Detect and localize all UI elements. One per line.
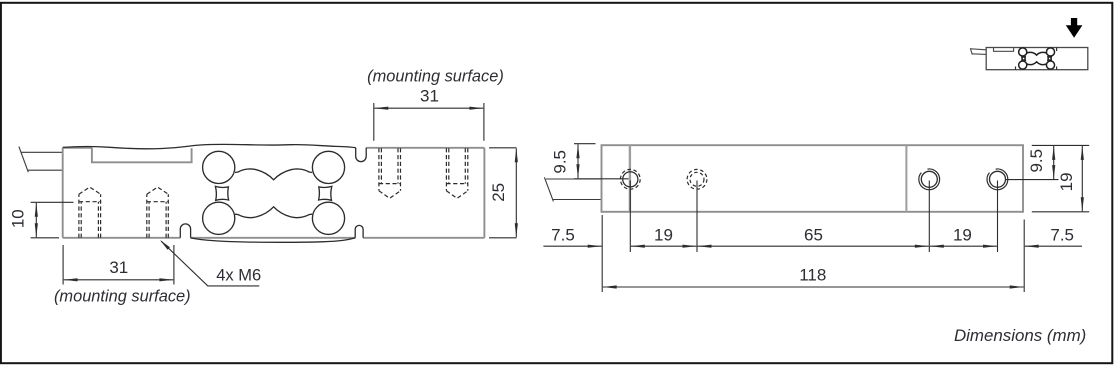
dim 9.5 left line — [577, 144, 579, 178]
hole 3: threaded hole — [921, 171, 937, 187]
svg-text:19: 19 — [1057, 172, 1076, 191]
dim 9.5 left: hole center extension — [574, 178, 629, 180]
top hole B — [445, 148, 447, 191]
load direction arrow — [1066, 18, 1083, 38]
arrowheads: dim 31 top — [374, 107, 388, 110]
svg-text:31: 31 — [109, 258, 128, 277]
bottom hole 1 — [78, 194, 80, 238]
dim 65 line — [698, 245, 929, 247]
cable (top view) — [544, 177, 601, 201]
dim 118 line — [603, 286, 1024, 288]
wavy unmachined bottom surface — [191, 238, 356, 242]
arrowhead: 7.5 left — [588, 245, 602, 248]
bottom hole 2 — [146, 194, 148, 238]
svg-text:19: 19 — [654, 226, 673, 245]
internal machined edge left — [629, 145, 631, 212]
top pocket notch — [92, 148, 192, 163]
dim 7.5 right line — [1025, 245, 1082, 247]
svg-text:10: 10 — [9, 209, 28, 228]
left edge — [62, 148, 64, 238]
ear circle top-left — [203, 151, 235, 183]
dim 31 bottom line — [64, 279, 174, 281]
arrowheads: 19 right — [1081, 146, 1084, 160]
dim 10 extension lines — [31, 201, 74, 203]
svg-text:118: 118 — [799, 266, 826, 285]
dim 10 line — [35, 203, 37, 237]
dim 9.5 right line — [1053, 146, 1055, 179]
top slot — [356, 148, 367, 162]
top hole A — [378, 148, 380, 191]
icon cable — [970, 48, 986, 54]
svg-text:31: 31 — [420, 87, 439, 106]
wavy unmachined top surface — [63, 144, 356, 149]
ear circle bottom-right — [312, 202, 344, 234]
left web pillow — [215, 186, 228, 200]
svg-text:4x M6: 4x M6 — [216, 267, 261, 285]
arrowheads: 19 bottom-right — [930, 245, 944, 248]
icon body — [986, 48, 1088, 70]
hole 4: threaded hole — [990, 171, 1006, 187]
bottom slot right — [355, 225, 363, 237]
bottom middle lobe arcs — [235, 207, 312, 218]
arrowheads: 118 — [603, 285, 617, 288]
svg-text:65: 65 — [804, 226, 823, 245]
icon flexure cutout — [1019, 48, 1055, 69]
dim 19 right line — [1081, 146, 1083, 211]
arrowheads: dim 10 — [35, 203, 38, 217]
arrowhead: M6 leader — [160, 240, 170, 250]
arrowheads: dim 31 bottom — [64, 278, 78, 281]
svg-text:7.5: 7.5 — [551, 226, 575, 245]
top edge right mounting surface — [366, 147, 484, 149]
dim 25 extension lines — [489, 147, 517, 149]
top edge left block — [63, 147, 92, 149]
dim 7.5 left line — [543, 245, 601, 247]
dim 9.5/19 right: extension lines — [1032, 144, 1089, 146]
arrowheads: 19 bottom-left — [631, 245, 645, 248]
svg-text:9.5: 9.5 — [550, 150, 569, 174]
icon slot marks — [1056, 48, 1058, 52]
arrowheads: dim 25 — [515, 148, 518, 162]
4x M6 leader — [161, 241, 259, 286]
svg-text:Dimensions (mm): Dimensions (mm) — [954, 326, 1086, 345]
dim 31 top line — [374, 107, 483, 109]
svg-text:(mounting surface): (mounting surface) — [54, 288, 191, 306]
bottom edge — [63, 237, 181, 239]
dim 9.5 right: hole4 center extension — [1006, 179, 1059, 181]
dim 31 bottom extension lines — [62, 245, 64, 285]
bottom extension lines — [601, 215, 603, 292]
hole 2: hidden threaded hole — [690, 172, 704, 186]
svg-text:25: 25 — [489, 183, 508, 202]
svg-text:19: 19 — [953, 226, 972, 245]
svg-text:(mounting surface): (mounting surface) — [367, 67, 504, 85]
hidden threaded holes, dashed — [79, 148, 468, 238]
arrowheads: 9.5 right — [1052, 146, 1055, 160]
hole 1: through hole with hidden thread — [623, 172, 638, 187]
internal machined edge right — [905, 145, 907, 212]
dim 19 bottom-left line — [631, 245, 697, 247]
bottom slot left — [180, 224, 190, 238]
arrowheads: 65 — [698, 245, 712, 248]
dim 31 top extension lines — [373, 103, 375, 141]
top middle lobe arcs — [235, 169, 312, 180]
dim 25 line — [515, 148, 517, 237]
cable (side view) — [19, 147, 63, 173]
arrowheads: 9.5 left — [576, 144, 579, 158]
svg-text:7.5: 7.5 — [1050, 226, 1074, 245]
ear circle top-right — [312, 151, 344, 183]
dim 19 bottom-right line — [930, 245, 997, 247]
svg-text:9.5: 9.5 — [1027, 149, 1046, 173]
ear circle bottom-left — [203, 202, 235, 234]
right edge — [483, 148, 485, 238]
top view body rectangle — [602, 145, 1024, 212]
dim 9.5 left: extension line at top — [574, 143, 596, 145]
flexure cutout — [203, 151, 345, 234]
arrowhead: 7.5 right — [1025, 245, 1039, 248]
icon top notch — [994, 48, 1014, 52]
body outline straight machined edges (gray) — [63, 148, 485, 238]
right web pillow — [319, 186, 332, 200]
